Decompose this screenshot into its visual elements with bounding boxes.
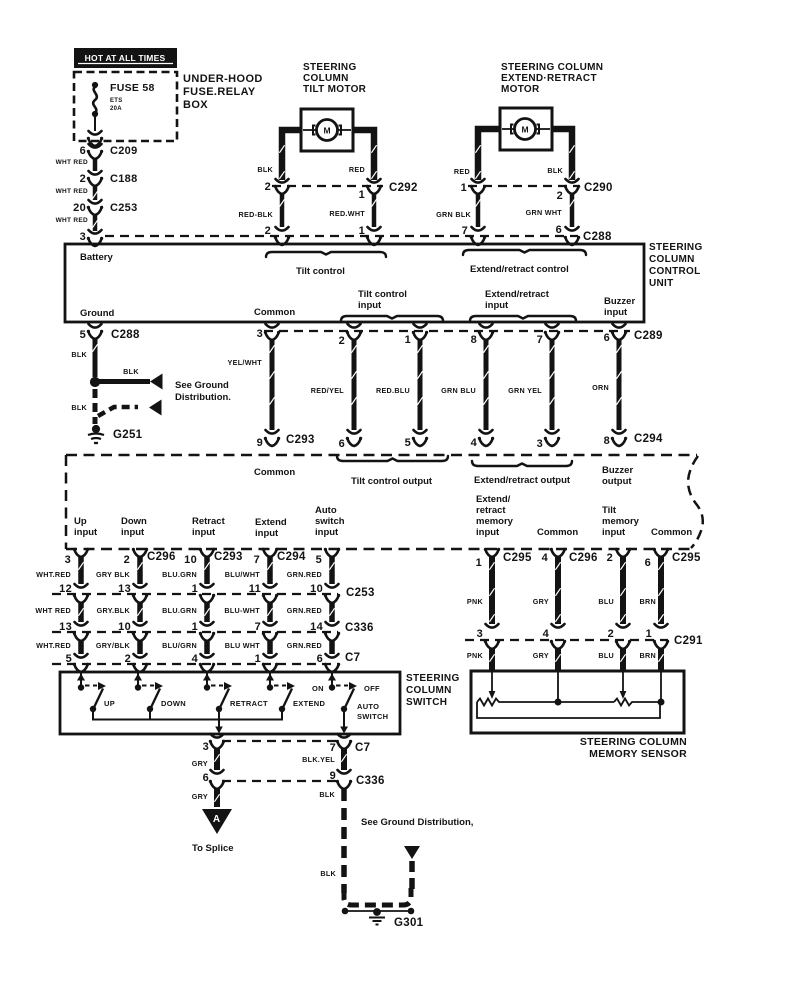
svg-text:BLU: BLU [598, 651, 614, 660]
potentiometer wiper 2 (BLU) [622, 672, 624, 691]
svg-text:BLK: BLK [71, 350, 87, 359]
svg-text:20A: 20A [110, 106, 122, 112]
connector top pin 7 C294 [263, 549, 277, 557]
svg-text:GRN.RED: GRN.RED [287, 570, 322, 579]
connector C7 pin 1 [264, 654, 277, 658]
svg-text:5: 5 [316, 554, 322, 566]
svg-text:C289: C289 [634, 330, 663, 342]
wire BLU/GRN (row 3) [200, 633, 214, 641]
wire BLU-WHT (row 2) [263, 595, 277, 603]
connector C253 pin 11 [264, 584, 277, 588]
svg-text:Buzzer: Buzzer [604, 296, 635, 307]
svg-text:C293: C293 [214, 551, 243, 563]
connector C7 pin 2 [134, 654, 147, 658]
svg-text:COLUMN: COLUMN [406, 685, 452, 696]
connector C292 (dashed line) [272, 185, 383, 187]
svg-text:7: 7 [537, 334, 543, 346]
svg-text:HOT AT ALL TIMES: HOT AT ALL TIMES [85, 53, 166, 63]
svg-text:3: 3 [203, 741, 209, 753]
svg-text:Auto: Auto [315, 505, 337, 516]
wire BRN (to C291 pin 1) [658, 557, 664, 624]
svg-text:C253: C253 [346, 587, 375, 599]
svg-text:9: 9 [257, 437, 263, 449]
svg-text:Battery: Battery [80, 252, 113, 263]
svg-text:WHT RED: WHT RED [56, 217, 88, 224]
svg-text:BLU/WHT: BLU/WHT [225, 570, 261, 579]
svg-text:RED-BLK: RED-BLK [239, 210, 274, 219]
svg-text:8: 8 [471, 334, 477, 346]
connector top pin 1 C295 [485, 549, 499, 557]
connector pin 6 [348, 430, 361, 434]
connector C336 pin 10 [134, 622, 147, 626]
svg-text:3: 3 [80, 231, 86, 243]
wire RED.WHT (C292 pin1 - C288 pin1) [372, 194, 377, 227]
svg-text:Extend/retract output: Extend/retract output [474, 475, 571, 486]
connector C289 area pin 2 [348, 324, 361, 328]
svg-text:RED.BLU: RED.BLU [376, 386, 410, 395]
svg-text:Buzzer: Buzzer [602, 465, 633, 476]
wire switch output to pin 3 (arrow) [218, 720, 220, 728]
wire dashed branch arrow to ground distribution [98, 407, 138, 416]
svg-text:Extend: Extend [255, 517, 287, 528]
connector C288 pin 1 [368, 227, 381, 231]
node memory sensor junction (GRY) [557, 672, 559, 702]
svg-text:C294: C294 [277, 551, 306, 563]
connector top pin 4 C296 [551, 549, 565, 557]
svg-text:GRY: GRY [192, 792, 208, 801]
wire GRY (C291 to memory sensor) [551, 641, 565, 649]
under-hood fuse/relay box (dashed) [74, 72, 177, 141]
svg-text:Common: Common [254, 307, 295, 318]
svg-text:GRN BLU: GRN BLU [441, 386, 476, 395]
svg-text:RED: RED [454, 167, 470, 176]
connector top pin 2 C296 [133, 549, 147, 557]
connector C253 pin 1 [201, 584, 214, 588]
svg-text:C296: C296 [569, 552, 598, 564]
connector C289 (dashed line) [264, 330, 630, 332]
svg-text:UP: UP [104, 699, 115, 708]
svg-text:GRN WHT: GRN WHT [526, 208, 563, 217]
connector pin 3 [546, 430, 559, 434]
connector top pin 10 C293 [200, 549, 214, 557]
svg-text:G251: G251 [113, 429, 143, 441]
svg-text:5: 5 [80, 329, 86, 341]
svg-text:C295: C295 [503, 552, 532, 564]
svg-text:C290: C290 [584, 182, 613, 194]
svg-text:BLU-WHT: BLU-WHT [224, 606, 260, 615]
svg-text:input: input [74, 527, 98, 538]
wire GRN.RED (row 1) [329, 557, 335, 584]
svg-text:Common: Common [651, 527, 692, 538]
svg-text:STEERING: STEERING [649, 242, 703, 253]
connector at fuse box edge [89, 131, 102, 135]
svg-text:WHT RED: WHT RED [56, 188, 88, 195]
svg-text:GRY/BLK: GRY/BLK [96, 641, 131, 650]
wire WHT RED (C209-C188) [93, 159, 98, 171]
connector C336 pin 1 [201, 622, 214, 626]
svg-text:memory: memory [602, 516, 640, 527]
svg-text:6: 6 [80, 145, 86, 157]
svg-text:WHT.RED: WHT.RED [36, 641, 71, 650]
wire BLK to ground distribution (arrow) [99, 379, 150, 384]
svg-text:G301: G301 [394, 917, 424, 929]
connector C7 pin 6 [326, 654, 339, 658]
svg-text:input: input [476, 527, 500, 538]
svg-text:C296: C296 [147, 551, 176, 563]
wire RED tilt motor right (thick) [353, 130, 374, 180]
connector cup into switch [325, 664, 339, 672]
connector C288 pin 7 [472, 227, 485, 231]
svg-text:C294: C294 [634, 433, 663, 445]
wire GRY BLK (row 1) [137, 557, 143, 584]
wire GRN BLU (control unit pin 8 to pin 4) [484, 340, 489, 430]
connector cup into switch [74, 664, 88, 672]
svg-text:output: output [602, 476, 632, 487]
svg-text:input: input [315, 527, 339, 538]
svg-text:C7: C7 [345, 652, 360, 664]
svg-text:Common: Common [537, 527, 578, 538]
svg-text:MOTOR: MOTOR [501, 84, 540, 95]
connector C336 pin 13 [75, 622, 88, 626]
connector C291 pin 3 [486, 624, 499, 628]
connector C336 pin 6 [211, 770, 224, 774]
svg-text:EXTEND: EXTEND [293, 699, 326, 708]
svg-text:3: 3 [65, 554, 71, 566]
wire fuse to C209 [93, 146, 97, 147]
wire RED extend motor left (thick) [478, 129, 500, 180]
svg-text:input: input [602, 527, 626, 538]
connector C292 pin 1 [368, 179, 381, 183]
connector C7 (dashed line, below switch) [222, 740, 341, 742]
wire WHT RED (row 2) [74, 595, 88, 603]
svg-text:Extend/retract control: Extend/retract control [470, 264, 569, 275]
connector C288 (dashed line) [105, 235, 578, 237]
connector C336 pin 9 [338, 770, 351, 774]
wire memory sensor return path [477, 702, 660, 718]
connector C336 (dashed line, below switch) [222, 780, 338, 782]
steering column switch dashed outline top edge [66, 454, 697, 457]
connector C289 area pin 1 [414, 324, 427, 328]
svg-text:WHT RED: WHT RED [56, 159, 88, 166]
svg-text:BOX: BOX [183, 99, 208, 111]
svg-text:Tilt control: Tilt control [296, 266, 345, 277]
svg-text:AUTO: AUTO [357, 702, 379, 711]
wire BLU (C291 to memory sensor) [616, 641, 630, 649]
svg-text:Tilt control output: Tilt control output [351, 476, 433, 487]
svg-text:SWITCH: SWITCH [357, 712, 388, 721]
connector C7 pin 5 [75, 654, 88, 658]
svg-text:3: 3 [477, 628, 483, 640]
connector C291 (dashed line) [465, 639, 668, 641]
node memory sensor junction (BRN) [660, 672, 662, 702]
connector C289 area pin 3 [266, 324, 279, 328]
svg-text:STEERING COLUMN: STEERING COLUMN [501, 62, 603, 73]
svg-text:A: A [213, 814, 220, 825]
svg-text:Common: Common [254, 467, 295, 478]
connector top pin 3 [74, 549, 88, 557]
svg-text:BLK.YEL: BLK.YEL [302, 755, 335, 764]
wire BLK.YEL (C7 pin7 - C336 pin9) [341, 749, 347, 770]
svg-text:2: 2 [608, 628, 614, 640]
wire GRN BLK (C290 pin1 - C288 pin7) [476, 194, 481, 227]
svg-text:WHT RED: WHT RED [35, 606, 71, 615]
svg-text:C188: C188 [110, 173, 138, 185]
arrow A to splice [202, 809, 232, 834]
svg-text:1: 1 [461, 182, 467, 194]
connector C290 (dashed line) [468, 185, 578, 187]
svg-text:2: 2 [265, 181, 271, 193]
svg-text:TILT MOTOR: TILT MOTOR [303, 84, 367, 95]
connector C288 cups into control unit [275, 237, 289, 245]
connector C253 pin 13 [134, 584, 147, 588]
svg-text:C288: C288 [111, 329, 140, 341]
connector top pin 2 [616, 549, 630, 557]
svg-text:retract: retract [476, 505, 506, 516]
svg-text:GRY: GRY [192, 759, 208, 768]
svg-text:Ground: Ground [80, 308, 114, 319]
svg-text:6: 6 [645, 557, 651, 569]
connector C336 (dashed line) [52, 631, 338, 633]
connector top pin 5 [325, 549, 339, 557]
wire BLU.GRN (row 2) [200, 595, 214, 603]
connector C288 pin 2 [276, 227, 289, 231]
svg-text:C291: C291 [674, 635, 703, 647]
svg-text:M: M [323, 126, 330, 136]
svg-text:4: 4 [542, 552, 549, 564]
wire BLU WHT (row 3) [263, 633, 277, 641]
svg-text:See Ground: See Ground [175, 380, 229, 391]
wire BLK extend motor right (thick) [552, 129, 572, 180]
svg-text:7: 7 [254, 554, 260, 566]
svg-text:6: 6 [604, 332, 610, 344]
connector C336 pin 7 [264, 622, 277, 626]
wire BLK dashed elbow at G301 [344, 888, 411, 905]
wire GRN.RED (row 2) [325, 595, 339, 603]
svg-text:GRN BLK: GRN BLK [436, 210, 471, 219]
steering column switch dashed outline bottom edge [66, 548, 694, 551]
wire BRN (C291 to memory sensor) [654, 641, 668, 649]
connector C289 area pin 7 [546, 324, 559, 328]
steering column control unit box [65, 244, 644, 322]
ground G301 [374, 909, 381, 916]
svg-text:COLUMN: COLUMN [649, 254, 695, 265]
fuse F58 (FUSE 58 ETS 20A) [92, 82, 97, 87]
svg-text:To Splice: To Splice [192, 843, 234, 854]
wire WHT.RED (row 1) [78, 557, 84, 584]
svg-text:C253: C253 [110, 202, 138, 214]
label HOT AT ALL TIMES [74, 48, 177, 68]
svg-text:BLU.GRN: BLU.GRN [162, 606, 197, 615]
svg-text:GRY BLK: GRY BLK [96, 570, 131, 579]
svg-text:5: 5 [405, 437, 411, 449]
svg-text:BLK: BLK [123, 367, 139, 376]
wire RED.BLU (control unit pin 1 to pin 5) [418, 340, 423, 430]
wire BLU.GRN (row 1) [204, 557, 210, 584]
connector C253 (dashed line) [52, 593, 338, 595]
connector C289 area pin 8 [480, 324, 493, 328]
potentiometer track 2 (resistor zigzag) [614, 699, 661, 706]
wire YEL/WHT (control unit pin 3 to pin 9) [270, 340, 275, 430]
wire BLK tilt motor left (thick) [282, 130, 301, 180]
svg-text:C7: C7 [355, 742, 370, 754]
motor M2 steering column extend/retract motor [500, 108, 552, 150]
motor M1 steering column tilt motor [301, 109, 353, 151]
switch EXTEND [269, 673, 271, 686]
potentiometer wiper 1 (PNK) [491, 672, 493, 691]
svg-text:DOWN: DOWN [161, 699, 186, 708]
wire BLU/WHT (row 1) [267, 557, 273, 584]
wire WHT RED (C253-C288 pin 3) [93, 215, 98, 231]
svg-text:memory: memory [476, 516, 514, 527]
svg-text:BLU WHT: BLU WHT [225, 641, 261, 650]
switch RETRACT [206, 673, 208, 686]
bracket extend/retract control [463, 250, 586, 255]
wire GRY (C336 pin6 to splice) [214, 789, 220, 807]
svg-text:ETS: ETS [110, 98, 123, 104]
svg-text:OFF: OFF [364, 684, 380, 693]
connector cup into switch [263, 664, 277, 672]
steering column switch dashed outline left edge [65, 455, 68, 549]
connector C292 pin 2 [276, 179, 289, 183]
svg-text:input: input [604, 307, 628, 318]
wire BLU (to C291 pin 2) [620, 557, 626, 624]
wire GRY (C7 pin3 - C336 pin6) [214, 749, 220, 770]
connector C290 pin 2 [566, 179, 579, 183]
svg-text:BLU: BLU [598, 597, 614, 606]
svg-text:input: input [192, 527, 216, 538]
svg-text:3: 3 [257, 328, 263, 340]
svg-text:6: 6 [556, 224, 562, 236]
connector C209 pin 6 [89, 144, 102, 148]
svg-text:BLU/GRN: BLU/GRN [162, 641, 197, 650]
svg-text:2: 2 [557, 190, 563, 202]
switch DOWN [137, 673, 139, 686]
svg-text:Down: Down [121, 516, 147, 527]
svg-text:C336: C336 [345, 622, 374, 634]
svg-text:RETRACT: RETRACT [230, 699, 268, 708]
svg-text:input: input [358, 300, 382, 311]
svg-text:3: 3 [537, 438, 543, 450]
svg-text:4: 4 [471, 437, 478, 449]
svg-text:BRN: BRN [640, 597, 656, 606]
svg-text:Extend/: Extend/ [476, 494, 511, 505]
svg-text:input: input [121, 527, 145, 538]
svg-text:7: 7 [330, 742, 336, 754]
svg-text:6: 6 [339, 438, 345, 450]
svg-text:STEERING: STEERING [406, 673, 460, 684]
svg-text:BLK: BLK [320, 869, 336, 878]
svg-text:1: 1 [646, 628, 652, 640]
svg-text:input: input [485, 300, 509, 311]
svg-text:RED.WHT: RED.WHT [329, 209, 365, 218]
connector C291 pin 2 [617, 624, 630, 628]
svg-text:Retract: Retract [192, 516, 226, 527]
connector pin 5 [414, 430, 427, 434]
svg-text:10: 10 [184, 554, 197, 566]
wire PNK (C291 to memory sensor) [485, 641, 499, 649]
wire GRY.BLK (row 2) [133, 595, 147, 603]
wire GRY (to C291 pin 4) [555, 557, 561, 624]
connector C289 area pin 6 [613, 324, 626, 328]
connector C288 pin 6 [566, 227, 579, 231]
wire GRN YEL (control unit pin 7 to pin 3) [550, 340, 555, 430]
svg-text:2: 2 [607, 552, 613, 564]
steering column switch dashed outline torn right edge [688, 456, 703, 548]
wire GRY/BLK (row 3) [133, 633, 147, 641]
svg-text:PNK: PNK [467, 651, 484, 660]
wire RED/YEL (control unit pin 2 to pin 6) [352, 340, 357, 430]
connector C288 pin 3 (battery feed) [89, 230, 102, 234]
wire BLK dashed (C336 pin9 down) [341, 789, 347, 893]
svg-text:BLK: BLK [257, 165, 273, 174]
svg-text:GRY.BLK: GRY.BLK [97, 606, 131, 615]
svg-text:2: 2 [339, 335, 345, 347]
svg-text:WHT.RED: WHT.RED [36, 570, 71, 579]
wire PNK (to C291 pin 3) [489, 557, 495, 624]
bracket tilt control [266, 252, 386, 257]
wire RED-BLK (C292 pin2 - C288 pin2) [280, 194, 285, 227]
connector C7 (dashed line) [52, 663, 338, 665]
bracket tilt control output [337, 456, 448, 461]
svg-text:C295: C295 [672, 552, 701, 564]
svg-text:PNK: PNK [467, 597, 484, 606]
connector C253 pin 10 [326, 584, 339, 588]
arrow from ground distribution (down) [404, 846, 420, 859]
steering column switch box [60, 672, 400, 734]
node ground junction [90, 377, 99, 386]
svg-text:GRY: GRY [533, 597, 549, 606]
svg-text:GRN.RED: GRN.RED [287, 606, 322, 615]
svg-text:8: 8 [604, 435, 610, 447]
svg-text:See Ground Distribution,: See Ground Distribution, [361, 817, 473, 828]
wire BLK dashed to G251 [93, 389, 98, 424]
svg-text:RED: RED [349, 165, 365, 174]
connector cup into switch [133, 664, 147, 672]
svg-text:C336: C336 [356, 775, 385, 787]
wire G301 ground bus [345, 910, 411, 912]
svg-text:1: 1 [359, 189, 365, 201]
wire auto switch output to pin 7 (arrow) [343, 710, 345, 727]
connector C291 pin 4 [552, 624, 565, 628]
svg-text:MEMORY SENSOR: MEMORY SENSOR [589, 748, 687, 760]
connector C253 pin 20 [89, 200, 102, 204]
svg-text:GRN.RED: GRN.RED [287, 641, 322, 650]
ground G251 [92, 425, 99, 432]
connector C188 pin 2 [89, 171, 102, 175]
svg-text:FUSE.RELAY: FUSE.RELAY [183, 86, 256, 98]
svg-text:Tilt: Tilt [602, 505, 617, 516]
steering column memory sensor box [471, 671, 684, 733]
wire switch common bus [93, 710, 282, 720]
svg-text:FUSE 58: FUSE 58 [110, 82, 155, 94]
wire WHT RED (C188-C253) [93, 186, 98, 200]
svg-text:2: 2 [80, 173, 86, 185]
bracket extend/retract output [472, 461, 572, 466]
svg-text:C293: C293 [286, 434, 315, 446]
svg-text:C209: C209 [110, 145, 138, 157]
bracket tilt control input [341, 316, 443, 321]
connector C288 pin 5 (ground) [89, 324, 102, 328]
svg-text:1: 1 [476, 557, 482, 569]
svg-text:BLK: BLK [547, 166, 563, 175]
svg-text:BLK: BLK [71, 403, 87, 412]
svg-text:Distribution.: Distribution. [175, 392, 231, 403]
connector C336 pin 14 [326, 622, 339, 626]
svg-text:6: 6 [203, 772, 209, 784]
connector pin 8 [613, 430, 626, 434]
svg-text:C292: C292 [389, 182, 418, 194]
svg-text:YEL/WHT: YEL/WHT [228, 358, 263, 367]
